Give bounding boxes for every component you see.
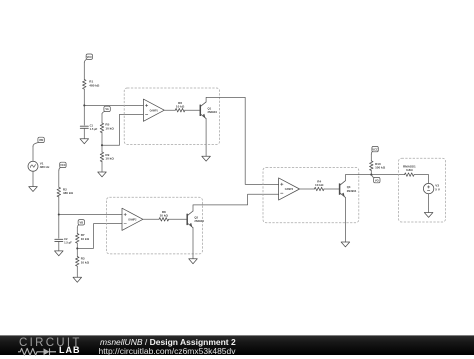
resistor R7 10 kOhm bbox=[76, 233, 90, 243]
node flag VIN (V1) bbox=[33, 137, 44, 146]
wire bbox=[101, 162, 103, 172]
ground bbox=[55, 251, 64, 256]
wire bbox=[76, 243, 78, 248]
ground bbox=[189, 259, 198, 264]
resistor R9 10 kOhm bbox=[100, 152, 114, 162]
wire bbox=[101, 133, 103, 146]
ground bbox=[29, 187, 38, 192]
wire bbox=[101, 114, 103, 123]
wire bbox=[32, 146, 34, 161]
url line bbox=[99, 347, 236, 356]
wire bbox=[58, 171, 60, 188]
wire bbox=[192, 228, 194, 259]
svg-text:10 kΩ: 10 kΩ bbox=[105, 157, 114, 161]
svg-text:10 kΩ: 10 kΩ bbox=[105, 126, 114, 130]
wire bbox=[414, 175, 429, 184]
power flag VCC (output pull-up) bbox=[371, 146, 378, 154]
op-amp OAMP2 bbox=[122, 208, 143, 230]
wire feedback to op-amp2 - input bbox=[77, 224, 122, 249]
svg-text:10 kΩ: 10 kΩ bbox=[176, 105, 185, 109]
resistor R10 100 kOhm bbox=[370, 161, 386, 171]
wire bbox=[344, 197, 346, 242]
junction bbox=[58, 213, 60, 215]
wire bbox=[370, 154, 372, 161]
resistor R3 10 kOhm bbox=[76, 257, 90, 267]
credit line bbox=[100, 338, 236, 347]
svg-text:10 kΩ: 10 kΩ bbox=[160, 214, 169, 218]
svg-text:10 kΩ: 10 kΩ bbox=[81, 260, 90, 264]
wire bbox=[101, 145, 103, 152]
wire bbox=[428, 194, 430, 213]
junction bbox=[101, 144, 103, 146]
node flag VB bbox=[77, 220, 84, 228]
wire bbox=[169, 218, 188, 220]
wire bbox=[185, 109, 200, 111]
resistor R4 10 kOhm bbox=[314, 180, 324, 191]
power flag VCC (bottom channel) bbox=[59, 162, 66, 171]
amplifier stage 1 dashed box bbox=[124, 88, 219, 144]
wire Q3 collector to output node bbox=[345, 175, 404, 181]
svg-text:0.8Ω: 0.8Ω bbox=[406, 168, 413, 172]
transistor Q1 2N3904 bbox=[200, 102, 217, 119]
wire bbox=[76, 227, 78, 233]
svg-text:100 kΩ: 100 kΩ bbox=[375, 166, 386, 170]
wire bbox=[58, 215, 60, 239]
svg-text:480 kΩ: 480 kΩ bbox=[89, 83, 100, 87]
wire bbox=[76, 266, 78, 277]
wire bbox=[300, 188, 315, 190]
resistor R2 480 kOhm bbox=[57, 187, 73, 197]
junction bbox=[76, 247, 78, 249]
wire bbox=[76, 248, 78, 256]
wire bbox=[143, 218, 159, 220]
wire bbox=[83, 63, 85, 80]
wire feedback to op-amp - input bbox=[102, 114, 143, 145]
ground bbox=[98, 172, 107, 177]
node flag VOUT bbox=[372, 175, 380, 183]
wire Q1 collector to summing + input bbox=[206, 97, 279, 184]
svg-text:10 kΩ: 10 kΩ bbox=[81, 237, 90, 241]
op-amp OAMP1 bbox=[143, 99, 164, 121]
junction bbox=[370, 174, 372, 176]
capacitor C2 1.5uF bbox=[55, 237, 72, 245]
wire bbox=[58, 241, 60, 251]
resistor RMASS1 0.8 Ohm bbox=[403, 164, 416, 176]
source V3 5V bbox=[423, 183, 440, 193]
wire bbox=[58, 197, 60, 215]
wire bbox=[324, 188, 340, 190]
op-amp OAMP3 bbox=[279, 178, 300, 200]
svg-text:480 Hz: 480 Hz bbox=[40, 165, 50, 169]
source V1 480 Hz bbox=[28, 161, 50, 171]
wire bbox=[205, 119, 207, 157]
wire bbox=[164, 109, 175, 111]
wire bbox=[32, 171, 34, 186]
power flag VCC (top channel) bbox=[84, 54, 92, 63]
resistor R1 480 kOhm bbox=[83, 80, 100, 90]
ground bbox=[202, 156, 211, 161]
wire node to op-amp2 + input bbox=[59, 214, 122, 216]
CircuitLab logo bbox=[19, 338, 82, 350]
node flag VA bbox=[102, 106, 110, 114]
transistor Q3 2N3904 bbox=[340, 181, 357, 198]
svg-text:10 kΩ: 10 kΩ bbox=[315, 183, 324, 187]
ground bbox=[341, 242, 350, 247]
wire bbox=[83, 105, 85, 125]
svg-text:V1: V1 bbox=[40, 161, 44, 165]
ground bbox=[73, 277, 82, 282]
svg-text:V3: V3 bbox=[435, 184, 439, 188]
wire bbox=[370, 171, 372, 175]
wire bbox=[83, 128, 85, 139]
ground bbox=[80, 139, 89, 144]
footer bar bbox=[0, 335, 474, 355]
ground bbox=[424, 213, 433, 218]
wire Q2 collector to summing - input bbox=[193, 194, 279, 211]
wire node to op-amp + input bbox=[84, 104, 143, 106]
resistor R8 10 kOhm bbox=[159, 210, 169, 221]
svg-text:480 kΩ: 480 kΩ bbox=[63, 191, 74, 195]
transistor Q2 2N3904 bbox=[187, 211, 204, 228]
load dashed box bbox=[399, 158, 446, 222]
amplifier stage 2 dashed box bbox=[106, 197, 202, 254]
resistor R6 10 kOhm bbox=[175, 101, 185, 112]
resistor R5 10 kOhm bbox=[100, 123, 114, 133]
summing stage dashed box bbox=[263, 167, 359, 222]
junction bbox=[83, 104, 85, 106]
wire bbox=[83, 89, 85, 105]
capacitor C1 1.5uF bbox=[80, 124, 97, 131]
